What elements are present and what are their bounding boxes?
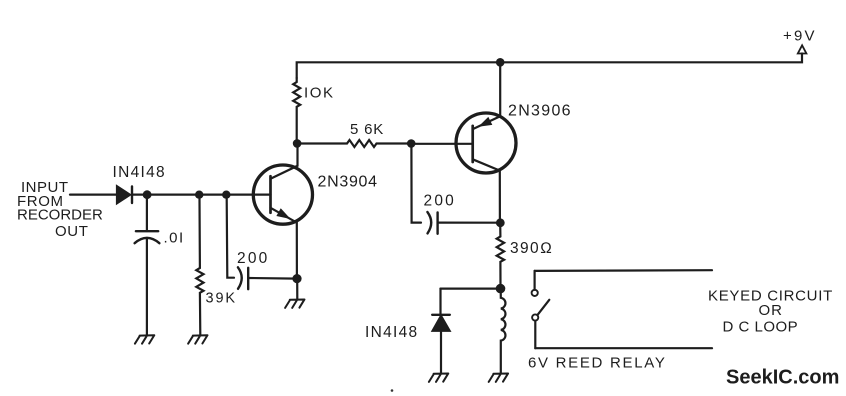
svg-text:IOK: IOK: [304, 85, 335, 102]
svg-text:.0I: .0I: [164, 230, 185, 247]
svg-text:390Ω: 390Ω: [510, 240, 553, 257]
svg-text:6V REED RELAY: 6V REED RELAY: [528, 355, 667, 372]
svg-text:5 6K: 5 6K: [350, 121, 384, 138]
svg-text:RECORDER: RECORDER: [17, 207, 103, 224]
svg-text:200: 200: [424, 192, 456, 209]
svg-text:IN4I48: IN4I48: [113, 164, 166, 181]
svg-text:SeekIC.com: SeekIC.com: [726, 367, 839, 389]
svg-text:D C LOOP: D C LOOP: [723, 319, 799, 336]
svg-text:2N3904: 2N3904: [318, 174, 378, 191]
svg-text:OUT: OUT: [55, 223, 88, 240]
svg-text:IN4I48: IN4I48: [365, 324, 418, 341]
svg-text:2N3906: 2N3906: [508, 103, 572, 120]
svg-text:OR: OR: [759, 302, 784, 319]
svg-text:39K: 39K: [206, 291, 238, 307]
svg-text:+9V: +9V: [783, 28, 817, 45]
svg-text:200: 200: [237, 250, 269, 267]
